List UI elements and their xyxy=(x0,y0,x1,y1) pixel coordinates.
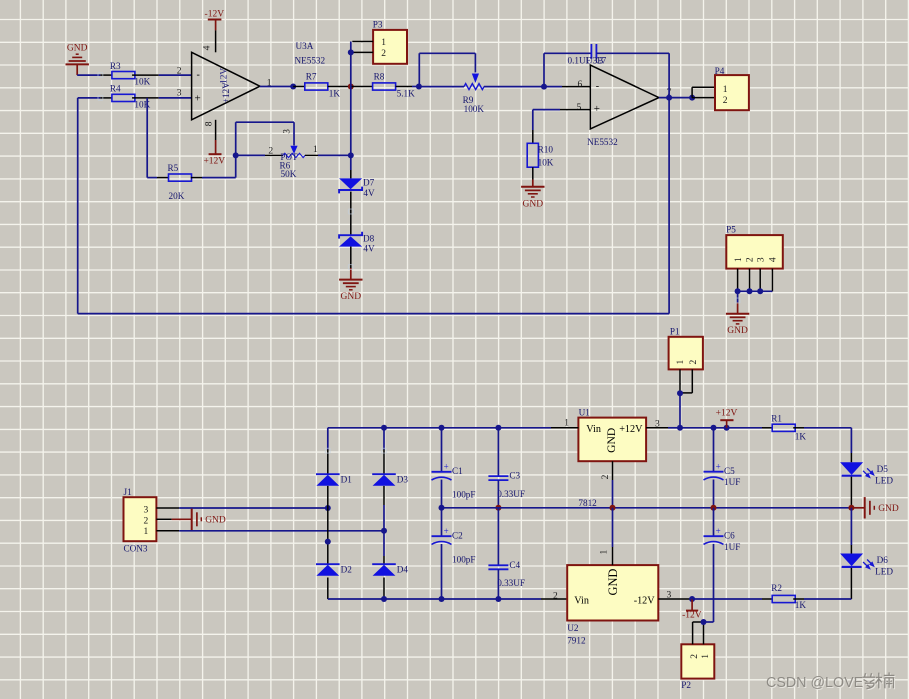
svg-text:3: 3 xyxy=(281,129,291,134)
svg-text:GND: GND xyxy=(341,292,362,302)
svg-text:GND: GND xyxy=(606,569,620,596)
svg-text:R10: R10 xyxy=(538,145,554,155)
junction bridge AC1 xyxy=(325,505,331,511)
svg-text:10K: 10K xyxy=(538,157,554,167)
svg-text:8: 8 xyxy=(204,121,214,126)
pin hotspot marks xyxy=(98,73,740,453)
zener diode D8 4V xyxy=(339,232,375,254)
junction C2 bottom rail xyxy=(439,596,445,602)
resistor R1 1K xyxy=(762,414,851,442)
svg-text:CON3: CON3 xyxy=(124,544,148,554)
svg-text:2: 2 xyxy=(746,257,756,262)
svg-text:C5: C5 xyxy=(724,466,735,476)
LED D5 xyxy=(840,462,893,485)
capacitor C7 0.1UF feedback xyxy=(544,44,669,87)
junction C4 bottom rail xyxy=(495,596,501,602)
svg-text:+: + xyxy=(444,462,449,472)
svg-text:C2: C2 xyxy=(452,530,463,540)
svg-text:2: 2 xyxy=(689,360,699,365)
svg-text:1UF: 1UF xyxy=(724,477,740,487)
wire +12V top rail xyxy=(328,428,551,450)
svg-text:0.33UF: 0.33UF xyxy=(497,578,525,588)
wire J1 pin 1 to bridge AC2 xyxy=(156,530,384,532)
potentiometer R6 POT 50K xyxy=(236,129,351,180)
svg-text:-: - xyxy=(197,70,200,81)
svg-text:100pF: 100pF xyxy=(452,490,476,500)
wire D6 to R2 xyxy=(850,568,852,599)
svg-text:3: 3 xyxy=(756,257,766,262)
diode D4 xyxy=(372,564,408,599)
connector P1 xyxy=(669,327,703,370)
svg-text:-12V: -12V xyxy=(205,10,225,20)
regulator U2 7912 xyxy=(567,565,658,645)
junction P3 pin 2 xyxy=(348,49,354,55)
svg-text:-12V: -12V xyxy=(220,68,230,87)
svg-text:3: 3 xyxy=(177,88,182,98)
wire rail to R1 xyxy=(680,427,762,429)
wire R5 to junction xyxy=(202,155,236,177)
power +12V (op-amp pin 8) xyxy=(203,120,225,167)
connector P3 xyxy=(373,19,407,64)
junction C3 top rail xyxy=(495,425,501,431)
junction output / C7 vertical xyxy=(666,95,672,101)
capacitor C2 100pF xyxy=(432,508,476,599)
svg-text:R3: R3 xyxy=(110,61,121,71)
resistor R8 xyxy=(351,72,419,99)
svg-text:6: 6 xyxy=(578,80,583,90)
svg-text:C4: C4 xyxy=(509,560,520,570)
wire U2 pin 2 label xyxy=(553,592,558,602)
svg-text:D4: D4 xyxy=(397,564,409,574)
svg-text:C7: C7 xyxy=(596,56,607,66)
svg-text:C6: C6 xyxy=(724,530,735,540)
svg-text:NE5532: NE5532 xyxy=(587,137,618,147)
svg-text:D7: D7 xyxy=(363,178,375,188)
wire U2 pin 3 xyxy=(658,591,692,601)
junction D1-D2 mid xyxy=(325,539,331,545)
junction D5 GND (red) xyxy=(848,505,854,511)
junction C3 mid rail (red) xyxy=(495,505,501,511)
svg-text:4: 4 xyxy=(202,45,212,50)
junction C5 mid rail (red) xyxy=(711,505,717,511)
wire U3B output xyxy=(659,97,692,99)
svg-text:1: 1 xyxy=(723,85,728,95)
svg-text:R4: R4 xyxy=(110,84,121,94)
junction +12V stem xyxy=(724,425,730,431)
wire C7 right vertical down to feedback bottom xyxy=(668,53,670,313)
connector P5 xyxy=(726,224,783,268)
zener diode D7 4V xyxy=(339,178,375,199)
wire P3 pins xyxy=(351,42,373,53)
svg-text:C1: C1 xyxy=(452,466,463,476)
svg-text:+: + xyxy=(444,526,449,536)
junction P5 bus 3 xyxy=(757,288,763,294)
svg-text:D5: D5 xyxy=(877,464,889,474)
svg-text:U1: U1 xyxy=(579,408,591,418)
connector P2 xyxy=(681,644,714,690)
resistor R7 xyxy=(293,72,351,99)
svg-text:0.33UF: 0.33UF xyxy=(497,489,525,499)
wire -12V bottom rail xyxy=(328,598,567,600)
junction pot output xyxy=(348,152,354,158)
wire J1 pin 3 to bridge AC1 xyxy=(156,507,327,509)
svg-text:50K: 50K xyxy=(281,169,297,179)
svg-text:-12V: -12V xyxy=(634,595,656,606)
svg-text:1K: 1K xyxy=(795,600,807,610)
wire feedback loop to pot wiper xyxy=(236,122,294,155)
wire GND to D6 xyxy=(850,508,852,554)
svg-text:NE5532: NE5532 xyxy=(295,56,326,66)
wire GND mid rail xyxy=(442,507,852,509)
svg-text:R8: R8 xyxy=(374,72,385,82)
ground GND2 (below R10) xyxy=(521,167,544,209)
junction D3 top rail xyxy=(381,425,387,431)
wire P1 to +12V rail xyxy=(679,393,681,428)
svg-text:GND: GND xyxy=(205,516,226,526)
regulator U1 7812 xyxy=(578,408,646,462)
label U3A xyxy=(295,41,326,66)
svg-text:P5: P5 xyxy=(726,224,736,234)
svg-text:J1: J1 xyxy=(124,487,133,497)
op-amp U3A NE5532 xyxy=(177,45,272,126)
power -12V xyxy=(682,599,702,621)
svg-text:7912: 7912 xyxy=(567,636,586,646)
svg-text:R5: R5 xyxy=(168,163,179,173)
power ground GND5 (J1 pin 2) xyxy=(156,509,226,530)
wire -12V to R2 xyxy=(692,598,762,600)
svg-text:CSDN @LOVE: CSDN @LOVE xyxy=(766,675,863,691)
svg-text:+: + xyxy=(716,462,721,472)
junction C5 top xyxy=(711,425,717,431)
svg-text:GND: GND xyxy=(605,428,618,453)
diode D3 xyxy=(372,474,408,486)
junction U1 pin2 mid rail (red) xyxy=(610,505,616,511)
wire U2 pin 1 (GND) xyxy=(599,508,612,565)
svg-text:+12V: +12V xyxy=(203,156,225,166)
wire R1 to D5 xyxy=(850,428,852,463)
wire D3 to D4 xyxy=(383,486,385,564)
svg-text:P1: P1 xyxy=(670,327,680,337)
junction U1 pin3 / P1 xyxy=(677,425,683,431)
wire P3 down to R7-R8 net and to D7 xyxy=(350,52,352,178)
LED D6 xyxy=(840,554,893,577)
junction R8 right xyxy=(416,84,422,90)
wire U3B pin 5 to R10 xyxy=(533,110,591,144)
wire P4 pin ties xyxy=(692,87,715,97)
svg-text:-: - xyxy=(596,81,599,92)
junction at U3B pin 6 xyxy=(541,84,547,90)
capacitor C1 100pF xyxy=(432,428,476,508)
junction at U3A output xyxy=(290,84,296,90)
ground GND3 (below D8) xyxy=(339,268,362,302)
op-amp U3B NE5532 xyxy=(577,65,672,147)
junction P4 tie xyxy=(689,95,695,101)
svg-text:P3: P3 xyxy=(373,19,383,29)
svg-text:3: 3 xyxy=(144,506,149,516)
wire D5 to GND rail xyxy=(850,477,852,508)
wire D8 to ground xyxy=(350,247,352,268)
svg-text:1: 1 xyxy=(734,257,744,262)
svg-text:1: 1 xyxy=(599,550,609,555)
svg-text:GND: GND xyxy=(523,199,544,209)
wire GND1 to R3 xyxy=(77,74,112,76)
resistor R2 1K xyxy=(762,583,851,610)
power ground GND6 (right) xyxy=(851,497,899,518)
svg-text:10K: 10K xyxy=(134,77,150,87)
junction D4 bottom rail xyxy=(381,596,387,602)
capacitor C3 0.33UF xyxy=(488,428,525,508)
junction P2 xyxy=(701,619,707,625)
ground GND1 (top-left) xyxy=(66,44,89,76)
wire U3B pin 6 xyxy=(544,86,590,88)
wire C6 column to P2 xyxy=(704,621,714,623)
svg-text:R2: R2 xyxy=(771,583,782,593)
svg-text:1: 1 xyxy=(313,145,318,155)
diode D1 xyxy=(316,450,352,486)
wire op-amp U3A output xyxy=(260,86,293,88)
wire P5 pins to bus xyxy=(738,269,773,292)
svg-text:Vin: Vin xyxy=(574,595,589,606)
svg-text:U2: U2 xyxy=(567,623,579,633)
wire D1 to D2 column xyxy=(327,486,329,564)
wire P2 pins xyxy=(693,622,704,644)
svg-text:2: 2 xyxy=(177,67,182,77)
svg-text:+: + xyxy=(594,103,600,115)
svg-text:P4: P4 xyxy=(715,66,725,76)
svg-text:2: 2 xyxy=(601,474,611,479)
svg-text:1: 1 xyxy=(381,38,386,48)
net label 7812 xyxy=(578,498,597,508)
wire R5 branch vertical xyxy=(147,98,157,178)
resistor R10 xyxy=(527,143,554,167)
junction C1 mid rail xyxy=(439,505,445,511)
junction P5 bus 1 xyxy=(735,288,741,294)
svg-text:20K: 20K xyxy=(169,191,185,201)
junction R5 top xyxy=(233,152,239,158)
svg-text:+12V: +12V xyxy=(619,424,643,435)
svg-text:1: 1 xyxy=(564,418,569,428)
svg-text:5: 5 xyxy=(577,103,582,113)
wire D7 to D8 xyxy=(350,192,352,236)
wire U1 pin 1 xyxy=(551,418,578,428)
svg-text:U3A: U3A xyxy=(296,41,314,51)
diode D2 xyxy=(316,564,352,599)
wire P1 pins xyxy=(680,369,692,393)
wire R4 to op-amp pin 3 xyxy=(132,97,192,99)
junction P1 xyxy=(677,390,683,396)
wire R3 to op-amp pin 2 xyxy=(132,74,192,76)
svg-text:1: 1 xyxy=(144,527,149,537)
junction U2 pin 3 xyxy=(689,596,695,602)
power -12V (op-amp pin 4) xyxy=(205,10,225,53)
svg-text:1: 1 xyxy=(676,360,686,365)
svg-text:1: 1 xyxy=(701,654,711,659)
svg-text:100K: 100K xyxy=(464,104,485,114)
svg-text:Vin: Vin xyxy=(586,424,601,435)
svg-text:2: 2 xyxy=(381,49,386,59)
svg-text:1K: 1K xyxy=(795,431,807,441)
svg-text:LED: LED xyxy=(875,475,893,485)
svg-text:+: + xyxy=(195,93,201,105)
svg-text:C3: C3 xyxy=(509,471,520,481)
svg-text:+: + xyxy=(716,526,721,536)
junction P5 bus 2 xyxy=(747,288,753,294)
resistor R3 xyxy=(110,61,151,87)
junction C1 top rail xyxy=(439,425,445,431)
ground GND4 (below P5) xyxy=(726,291,749,336)
resistor R4 xyxy=(100,84,150,110)
power +12V (rail) xyxy=(716,409,738,428)
svg-text:+12V: +12V xyxy=(716,409,738,419)
svg-text:2: 2 xyxy=(723,96,728,106)
svg-text:4V: 4V xyxy=(363,244,375,254)
capacitor C6 1UF xyxy=(704,508,741,622)
svg-text:GND: GND xyxy=(67,44,88,54)
connector P4 xyxy=(715,66,749,110)
svg-text:4: 4 xyxy=(769,257,779,262)
svg-text:D3: D3 xyxy=(397,474,409,484)
capacitor C5 1UF xyxy=(704,428,741,508)
svg-text:7812: 7812 xyxy=(578,498,597,508)
svg-text:D8: D8 xyxy=(363,234,375,244)
svg-text:2: 2 xyxy=(553,592,558,602)
wire U1 pin 2 to mid rail xyxy=(601,461,613,508)
svg-text:P2: P2 xyxy=(681,680,691,690)
svg-text:100pF: 100pF xyxy=(452,555,476,565)
svg-text:GND: GND xyxy=(878,504,899,514)
wire D3 column top xyxy=(383,428,385,474)
svg-text:10K: 10K xyxy=(134,99,150,109)
wire R8 junction up and over to R9 wiper xyxy=(419,53,475,86)
wire left vertical from R4 down to feedback bottom xyxy=(78,98,101,314)
junction bridge AC2 xyxy=(381,528,387,534)
resistor R5 xyxy=(157,163,202,201)
capacitor C4 0.33UF xyxy=(488,508,525,599)
connector J1 CON3 xyxy=(124,487,157,554)
svg-text:D2: D2 xyxy=(341,564,353,574)
wire feedback bottom horizontal xyxy=(78,313,669,315)
svg-text:R7: R7 xyxy=(306,72,317,82)
svg-text:1UF: 1UF xyxy=(724,542,740,552)
svg-text:-12V: -12V xyxy=(682,611,702,621)
watermark CSDN @LOVE xyxy=(766,672,895,692)
svg-text:LED: LED xyxy=(875,567,893,577)
svg-text:5.1K: 5.1K xyxy=(397,88,415,98)
svg-text:R1: R1 xyxy=(771,414,782,424)
svg-text:GND: GND xyxy=(727,326,748,336)
svg-text:2: 2 xyxy=(690,654,700,659)
svg-text:4V: 4V xyxy=(363,188,375,198)
svg-text:D6: D6 xyxy=(877,555,889,565)
svg-text:2: 2 xyxy=(144,516,149,526)
wire U1 pin 3 xyxy=(646,419,680,429)
svg-text:1K: 1K xyxy=(329,89,341,99)
junction R7-R8 (red) xyxy=(348,84,354,90)
svg-text:D1: D1 xyxy=(341,474,353,484)
potentiometer R9 100K xyxy=(419,74,544,115)
